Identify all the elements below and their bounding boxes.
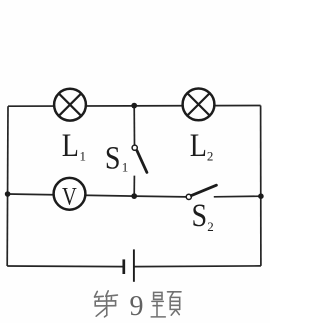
wire top bbox=[8, 105, 261, 108]
node junction middle (S1 bottom) bbox=[131, 193, 137, 199]
switch S2 blade (open) bbox=[191, 185, 216, 195]
node junction right (middle wire / right wire) bbox=[258, 193, 264, 199]
svg-text:S: S bbox=[105, 139, 121, 176]
svg-text:2: 2 bbox=[207, 219, 214, 234]
svg-text:9: 9 bbox=[130, 291, 144, 322]
svg-text:L: L bbox=[62, 127, 79, 164]
wire right bbox=[260, 106, 262, 266]
wire middle (voltmeter branch to S2 pivot) bbox=[8, 194, 187, 197]
caption: hand-drawn CJK 第 (gray) bbox=[95, 291, 118, 317]
caption: hand-drawn CJK 题 (gray) bbox=[151, 292, 181, 317]
svg-text:2: 2 bbox=[207, 149, 214, 164]
wire bottom right of battery bbox=[134, 265, 261, 268]
label L2 bbox=[190, 127, 214, 164]
voltmeter V bbox=[54, 178, 86, 210]
switch S2 pivot bbox=[186, 194, 191, 199]
wire left bbox=[6, 106, 9, 266]
svg-text:S: S bbox=[192, 197, 208, 234]
wire bottom left of battery bbox=[7, 265, 123, 268]
switch S1 blade (open) bbox=[137, 151, 147, 173]
svg-text:V: V bbox=[62, 183, 77, 210]
switch S1 pivot bbox=[132, 145, 137, 150]
svg-text:L: L bbox=[190, 127, 207, 164]
wire S1 vertical lower bbox=[133, 176, 135, 197]
lamp L2 bbox=[183, 89, 215, 121]
wire middle right stub after S2 bbox=[214, 195, 261, 198]
wire S1 vertical upper bbox=[133, 106, 135, 145]
label S2 bbox=[192, 197, 214, 234]
label L1 bbox=[62, 127, 86, 164]
lamp L1 bbox=[54, 89, 86, 121]
label S1 bbox=[105, 139, 128, 176]
battery positive plate (long) bbox=[133, 249, 135, 281]
svg-text:1: 1 bbox=[80, 149, 87, 164]
battery negative plate (short) bbox=[122, 259, 125, 274]
node junction left (middle wire / left wire) bbox=[5, 191, 11, 197]
svg-text:1: 1 bbox=[122, 160, 129, 175]
node junction top (S1 top) bbox=[131, 103, 137, 109]
